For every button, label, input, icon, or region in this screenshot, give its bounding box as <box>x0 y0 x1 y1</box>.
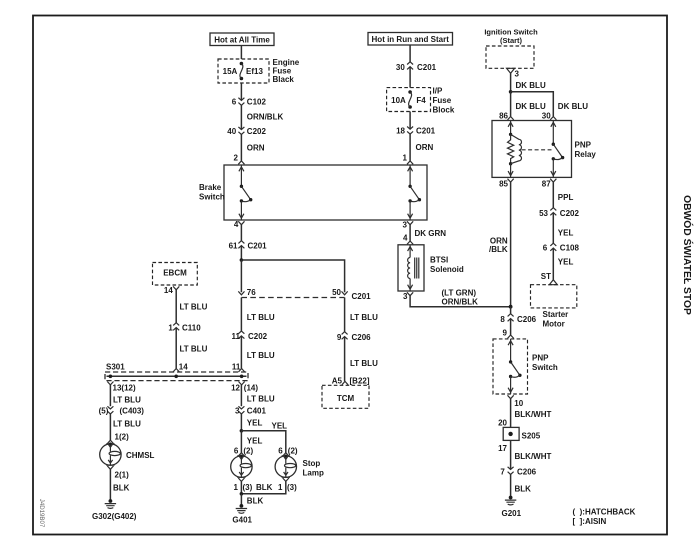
svg-text:LT BLU: LT BLU <box>113 395 141 404</box>
wire (LT GRN) ORN/BLK BTSI to junction <box>410 289 511 307</box>
svg-text:Stop: Stop <box>303 459 321 468</box>
svg-text:C108: C108 <box>560 244 580 253</box>
svg-text:50: 50 <box>332 288 341 297</box>
wire YEL junction to left stop lamp <box>241 431 262 453</box>
svg-text:PNP: PNP <box>532 354 549 363</box>
svg-text:11: 11 <box>232 362 241 371</box>
svg-text:LT BLU: LT BLU <box>180 345 208 354</box>
svg-text:40: 40 <box>227 127 236 136</box>
svg-text:DK BLU: DK BLU <box>516 102 546 111</box>
wire YEL C202 to C108 <box>553 213 573 244</box>
wire LT BLU C110 to splice S301 pin 14 <box>176 328 207 369</box>
svg-text:4: 4 <box>403 234 408 243</box>
svg-text:YEL: YEL <box>558 258 574 267</box>
svg-text:(5): (5) <box>99 407 109 416</box>
svg-text:76: 76 <box>247 288 256 297</box>
legend HATCHBACK / AISIN <box>573 508 636 527</box>
svg-text:[B22]: [B22] <box>350 377 370 386</box>
wire BLK/WHT S205 to C206 pin 7 <box>511 440 552 469</box>
wire LT BLU C206 to TCM pin A5 <box>345 337 378 382</box>
svg-text:YEL: YEL <box>247 437 263 446</box>
svg-text:11: 11 <box>232 332 241 341</box>
svg-text:Block: Block <box>433 106 455 115</box>
svg-text:Starter: Starter <box>543 310 569 319</box>
svg-text:PPL: PPL <box>558 193 574 202</box>
pin 87 of PNP relay <box>542 179 557 189</box>
pin ST of starter motor <box>541 272 558 285</box>
brake switch right stub to pin 3 <box>408 201 413 220</box>
lamp CHMSL <box>100 442 155 465</box>
pin 6 (2) of right stop lamp <box>278 446 298 456</box>
svg-text:YEL: YEL <box>558 228 574 237</box>
wire BLK/WHT PNP switch to splice S205 <box>511 399 552 428</box>
svg-text:C202: C202 <box>248 332 268 341</box>
connector C201 pin 50 <box>332 288 371 301</box>
pin A5 [B22] of TCM <box>332 377 370 386</box>
pin 1 of brake switch <box>403 154 414 165</box>
svg-text:OBWÓD ŚWIATEŁ STOP: OBWÓD ŚWIATEŁ STOP <box>681 195 694 315</box>
ground G401 <box>232 504 252 525</box>
wire C206 to PNP switch pin 9 <box>510 319 512 335</box>
brake switch left switch blade <box>240 185 253 203</box>
wire DK BLU junction to PNP relay pin 86 <box>511 92 546 117</box>
svg-text:Solenoid: Solenoid <box>430 265 464 274</box>
svg-text:G302(G402): G302(G402) <box>92 512 137 521</box>
connector C102 pin 6 <box>232 98 267 107</box>
pin 14 of EBCM <box>164 286 179 295</box>
PNP relay contact stub to pin 87 <box>551 159 556 178</box>
svg-text:LT BLU: LT BLU <box>350 313 378 322</box>
svg-text:6: 6 <box>278 446 283 455</box>
wire BLK CHMSL to ground <box>110 469 129 500</box>
svg-text:86: 86 <box>499 111 508 120</box>
pin 1(2) of CHMSL <box>107 433 129 444</box>
pin 4 of BTSI solenoid <box>403 234 413 245</box>
wire YEL C401 to junction <box>241 414 262 431</box>
wire DK BLU ignition switch to junction <box>511 73 546 92</box>
pin 86 of PNP relay <box>499 111 514 120</box>
pin 2 of brake switch <box>234 154 245 165</box>
PNP switch contact blade <box>509 360 522 378</box>
pin 9 of PNP switch <box>503 328 514 338</box>
pin 11 of splice S301 <box>232 362 245 372</box>
svg-text:2(1): 2(1) <box>115 470 130 479</box>
wire DK BLU branch to PNP relay pin 30 <box>511 92 589 117</box>
wire branch junction to C201 pin 50 drop <box>241 260 344 292</box>
svg-text:YEL: YEL <box>272 421 288 430</box>
connector C201 pin 30 <box>396 62 437 72</box>
svg-text:12: 12 <box>231 383 240 392</box>
connector C202 pin 11 <box>232 331 268 341</box>
wire from Hot in Run and Start to C201 <box>409 45 411 62</box>
label I/P Fuse Block <box>433 87 455 115</box>
svg-text:20: 20 <box>498 419 507 428</box>
fuse F4 10A (I/P Fuse Block) <box>387 88 431 112</box>
svg-text:9: 9 <box>337 333 342 342</box>
svg-text:DK BLU: DK BLU <box>558 102 588 111</box>
svg-text:14: 14 <box>164 286 173 295</box>
svg-text:Fuse: Fuse <box>433 96 452 105</box>
svg-text:G201: G201 <box>502 509 522 518</box>
svg-text:1: 1 <box>234 483 239 492</box>
svg-text:2: 2 <box>234 154 239 163</box>
PNP relay coil stub from pin 86 <box>508 121 513 135</box>
svg-text:(Start): (Start) <box>500 36 523 45</box>
wire LT BLU S301 to C403 <box>110 385 141 406</box>
svg-text:Brake: Brake <box>199 183 222 192</box>
pin 10 of PNP switch <box>508 395 524 408</box>
svg-text:LT BLU: LT BLU <box>180 303 208 312</box>
pin 1 (3) of left stop lamp <box>234 478 253 492</box>
PNP relay coil stub to pin 85 <box>508 164 513 178</box>
svg-text:4: 4 <box>234 220 239 229</box>
pin 3 of brake switch <box>403 220 414 229</box>
connector C201 pin 76 <box>238 288 256 297</box>
PNP relay dashed actuator link <box>522 149 552 151</box>
brake switch S1 <box>199 165 427 220</box>
svg-text:Black: Black <box>273 75 295 84</box>
PNP switch stub to pin 10 <box>508 377 513 395</box>
svg-text:J4D19B07: J4D19B07 <box>38 499 45 528</box>
svg-text:A5: A5 <box>332 377 343 386</box>
svg-text:BLK/WHT: BLK/WHT <box>515 452 552 461</box>
EBCM U1 <box>153 263 198 286</box>
svg-text:LT BLU: LT BLU <box>350 359 378 368</box>
svg-text:PNP: PNP <box>575 141 592 150</box>
wire LT BLU S301 to C401 <box>241 385 274 406</box>
pin 30 of PNP relay <box>542 111 557 120</box>
svg-text:LT BLU: LT BLU <box>247 351 275 360</box>
wire BLK C206 to ground G201 <box>511 474 532 497</box>
svg-text:(3): (3) <box>287 483 297 492</box>
svg-text:ST: ST <box>541 272 551 281</box>
lamp stop lamp right <box>275 455 324 478</box>
wire from Hot at All Time to fuse Ef13 <box>240 46 242 60</box>
PNP relay switch contact <box>552 143 565 161</box>
svg-text:C201: C201 <box>416 127 436 136</box>
junction node YEL <box>240 429 244 433</box>
PNP relay K1 <box>492 121 596 178</box>
svg-text:EBCM: EBCM <box>163 269 187 278</box>
svg-text:ORN/BLK: ORN/BLK <box>247 113 284 122</box>
PNP relay coil (inductor bracket) <box>511 134 522 163</box>
junction node BLK <box>240 492 244 496</box>
junction node DK BLU <box>509 90 513 94</box>
svg-text:C401: C401 <box>247 407 267 416</box>
ground G201 <box>502 496 522 518</box>
svg-text:C202: C202 <box>247 127 267 136</box>
svg-text:[ ]:AISIN: [ ]:AISIN <box>573 517 607 526</box>
svg-text:C102: C102 <box>247 98 267 107</box>
svg-text:10: 10 <box>514 399 523 408</box>
svg-text:C201: C201 <box>352 292 372 301</box>
connector C201 dashed link 76 to 50 <box>241 297 344 299</box>
svg-text:13(12): 13(12) <box>113 383 136 392</box>
fuse Ef13 15A (Engine Fuse Block) <box>218 59 269 83</box>
svg-text:(3): (3) <box>243 483 253 492</box>
wire YEL branch to right stop lamp <box>241 421 287 452</box>
svg-text:3: 3 <box>403 292 408 301</box>
connector C110 pin 1 <box>168 323 201 333</box>
svg-text:85: 85 <box>499 180 508 189</box>
starter motor M1 <box>531 285 577 329</box>
svg-text:BLK: BLK <box>256 483 273 492</box>
junction node below C201 <box>240 258 244 262</box>
wire ORN C201 to brake switch pin 1 <box>410 134 433 161</box>
svg-text:F4: F4 <box>416 96 426 105</box>
PNP relay contact stub from pin 30 <box>551 121 556 145</box>
connector C202 pin 40 <box>227 127 266 136</box>
svg-text:6: 6 <box>232 98 237 107</box>
splice S301 <box>105 362 248 380</box>
svg-text:LT BLU: LT BLU <box>113 419 141 428</box>
svg-text:Hot at All Time: Hot at All Time <box>214 36 270 45</box>
pin 2(1) of CHMSL <box>107 466 129 479</box>
wire brake switch pin 4 to C201 pin 61 <box>240 225 242 241</box>
svg-text:BLK: BLK <box>247 496 264 505</box>
wire ORN/BLK PNP relay 85 to junction <box>489 182 511 307</box>
svg-text:1(2): 1(2) <box>115 433 130 442</box>
svg-text:/BLK: /BLK <box>489 245 508 254</box>
node Hot in Run and Start <box>368 33 453 46</box>
node Hot at All Time <box>210 33 274 46</box>
pin 13(12) of splice S301 <box>107 382 136 393</box>
svg-text:G401: G401 <box>232 516 252 525</box>
wire PPL PNP relay 87 to C202 pin 53 <box>553 182 573 208</box>
wire fuse Ef13 to C102 <box>240 83 242 100</box>
svg-text:Hot in Run and Start: Hot in Run and Start <box>372 35 450 44</box>
svg-text:30: 30 <box>396 63 405 72</box>
junction node ORN/BLK <box>509 305 513 309</box>
connector C206 pin 9 <box>337 332 371 342</box>
svg-text:C201: C201 <box>248 241 268 250</box>
solenoid BTSI L1 <box>398 245 464 291</box>
svg-text:BLK: BLK <box>113 484 130 493</box>
svg-text:BTSI: BTSI <box>430 256 448 265</box>
brake switch left stub to pin 4 <box>239 201 244 220</box>
svg-text:TCM: TCM <box>337 394 355 403</box>
svg-text:15A: 15A <box>223 67 238 76</box>
wire C201 pin 61 to junction <box>240 246 242 262</box>
wire LT BLU C201 pin 50 to C206 pin 9 <box>345 298 378 332</box>
svg-text:C206: C206 <box>517 315 537 324</box>
PNP switch SW3 <box>493 339 558 394</box>
wire YEL C108 to starter motor pin ST <box>553 248 573 280</box>
connector C108 pin 6 <box>543 243 580 253</box>
wire left stop lamp to ground junction <box>240 481 242 493</box>
wire BLK junction to ground G401 <box>241 494 263 506</box>
svg-text:LT BLU: LT BLU <box>247 395 275 404</box>
svg-text:10A: 10A <box>391 96 406 105</box>
wire LT BLU C202 to splice S301 pin 11 <box>241 336 274 369</box>
connector C403 pin (5) <box>99 406 145 415</box>
svg-text:Switch: Switch <box>532 363 558 372</box>
svg-text:Relay: Relay <box>575 150 597 159</box>
pin 6 (2) of left stop lamp <box>234 446 254 456</box>
svg-text:3: 3 <box>235 407 240 416</box>
connector C401 pin 3 <box>235 406 267 415</box>
wire LT BLU EBCM to C110 <box>176 290 207 323</box>
svg-text:C206: C206 <box>352 333 372 342</box>
svg-text:1: 1 <box>403 154 408 163</box>
pin 14 of splice S301 <box>173 362 188 372</box>
svg-text:( ):HATCHBACK: ( ):HATCHBACK <box>573 508 636 517</box>
svg-text:61: 61 <box>229 241 238 250</box>
wire junction down to C201 pin 76 <box>240 260 242 292</box>
lamp stop lamp left <box>231 455 252 478</box>
ground G302(G402) <box>92 499 137 521</box>
pin 12 (14) of splice S301 <box>231 382 258 393</box>
svg-text:87: 87 <box>542 180 551 189</box>
svg-text:Switch: Switch <box>199 193 225 202</box>
ignition switch SW2 (Start) <box>484 28 538 69</box>
svg-text:DK GRN: DK GRN <box>415 229 447 238</box>
wire LT BLU C403 to CHMSL <box>110 414 141 440</box>
svg-text:DK BLU: DK BLU <box>516 81 546 90</box>
svg-text:(2): (2) <box>243 446 253 455</box>
pin 85 of PNP relay <box>499 179 514 189</box>
svg-text:18: 18 <box>396 127 405 136</box>
wire C201 to fuse F4 <box>409 67 411 88</box>
pin 4 of brake switch <box>234 220 245 229</box>
svg-text:BLK: BLK <box>515 485 532 494</box>
brake switch left contact stub pin 2 <box>239 165 244 186</box>
connector C206 pin 7 <box>500 467 536 476</box>
svg-text:ORN: ORN <box>416 143 434 152</box>
wire fuse F4 to C201 pin 18 <box>409 112 411 130</box>
wire ORN/BLK C102 to C202 <box>241 105 283 129</box>
wire ORN C202 to brake switch pin 2 <box>241 135 264 161</box>
svg-text:9: 9 <box>503 328 508 337</box>
wire DK GRN brake switch pin 3 to BTSI pin 4 <box>410 225 446 241</box>
pin 3 of BTSI solenoid <box>403 292 413 301</box>
svg-text:CHMSL: CHMSL <box>126 451 155 460</box>
svg-text:30: 30 <box>542 111 551 120</box>
svg-text:Ef13: Ef13 <box>246 67 263 76</box>
svg-text:ORN: ORN <box>247 144 265 153</box>
svg-text:I/P: I/P <box>433 87 443 96</box>
PNP switch contact stub from pin 9 <box>508 339 513 362</box>
svg-text:S205: S205 <box>522 432 541 441</box>
svg-text:3: 3 <box>403 220 408 229</box>
svg-text:S301: S301 <box>106 362 125 371</box>
svg-text:1: 1 <box>168 324 173 333</box>
brake switch right switch blade <box>408 185 421 203</box>
svg-text:6: 6 <box>543 244 548 253</box>
wire right stop lamp to ground junction <box>241 481 285 493</box>
svg-text:Motor: Motor <box>543 320 565 329</box>
svg-text:BLK/WHT: BLK/WHT <box>515 410 552 419</box>
svg-text:C202: C202 <box>560 209 580 218</box>
pin 1 (3) of right stop lamp <box>278 478 297 492</box>
svg-text:C206: C206 <box>517 467 537 476</box>
svg-text:6: 6 <box>234 446 239 455</box>
svg-text:8: 8 <box>500 315 505 324</box>
brake switch right contact stub pin 1 <box>408 165 413 186</box>
svg-text:(LT GRN): (LT GRN) <box>442 289 477 298</box>
svg-text:(14): (14) <box>244 383 259 392</box>
svg-text:17: 17 <box>498 444 507 453</box>
svg-text:(2): (2) <box>288 446 298 455</box>
svg-text:C110: C110 <box>182 324 201 333</box>
label Engine Fuse Black <box>273 58 300 84</box>
PNP relay coil (resistor zigzag) <box>508 133 514 166</box>
svg-text:1: 1 <box>278 483 283 492</box>
svg-text:YEL: YEL <box>247 419 263 428</box>
connector C201 pin 18 <box>396 127 436 136</box>
svg-text:7: 7 <box>500 467 505 476</box>
splice S205 <box>503 427 541 440</box>
connector C202 pin 53 <box>539 208 579 218</box>
pin 3 of ignition switch <box>507 68 520 78</box>
wire LT BLU C201 pin 76 to C202 pin 11 <box>241 298 274 332</box>
svg-text:ORN/BLK: ORN/BLK <box>442 298 479 307</box>
TCM U2 <box>322 385 369 408</box>
svg-text:C201: C201 <box>417 63 437 72</box>
svg-text:Lamp: Lamp <box>303 469 324 478</box>
svg-text:(C403): (C403) <box>120 407 145 416</box>
connector C206 pin 8 <box>500 314 536 324</box>
connector C201 pin 61 <box>229 241 268 251</box>
svg-text:LT BLU: LT BLU <box>247 313 275 322</box>
svg-text:3: 3 <box>515 70 520 79</box>
svg-text:14: 14 <box>179 362 188 371</box>
svg-text:53: 53 <box>539 209 548 218</box>
wire junction to C206 pin 8 <box>510 307 512 314</box>
